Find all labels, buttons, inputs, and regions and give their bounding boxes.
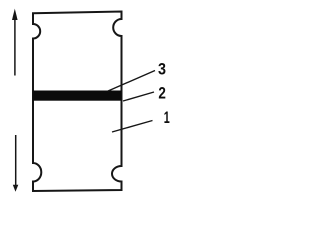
svg-text:2: 2 xyxy=(158,84,166,103)
specimen outline with four semicircular edge notches xyxy=(33,12,122,192)
leader line 3 xyxy=(108,71,155,92)
leader line 2 xyxy=(123,92,154,101)
black adhesive band layer 2 xyxy=(33,91,122,101)
down arrow xyxy=(13,135,18,192)
leader line 1 xyxy=(112,121,153,133)
svg-text:1: 1 xyxy=(164,108,170,127)
up arrow xyxy=(12,9,18,76)
svg-text:3: 3 xyxy=(158,59,166,78)
